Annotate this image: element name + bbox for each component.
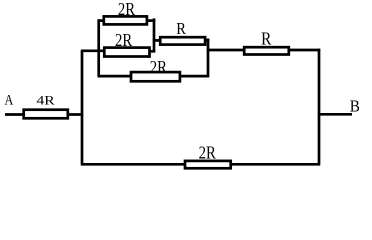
svg-text:A: A (5, 92, 14, 108)
svg-text:B: B (350, 98, 360, 116)
svg-text:R: R (261, 28, 271, 48)
svg-text:R: R (176, 20, 186, 38)
svg-text:2R: 2R (115, 30, 132, 51)
svg-text:2R: 2R (118, 0, 135, 19)
svg-text:4R: 4R (36, 93, 55, 107)
svg-text:2R: 2R (199, 142, 216, 163)
svg-text:2R: 2R (150, 56, 167, 77)
